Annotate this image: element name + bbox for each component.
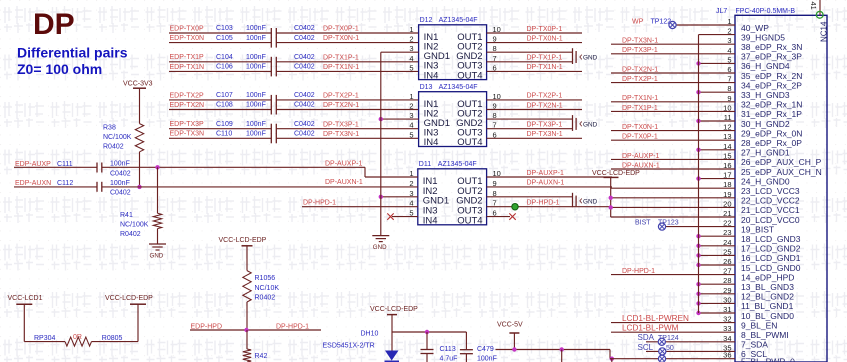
svg-text:5: 5 xyxy=(409,130,413,139)
svg-text:IN4: IN4 xyxy=(424,137,439,148)
svg-text:DP-TX3P-1: DP-TX3P-1 xyxy=(622,47,658,54)
resistor R42 xyxy=(246,330,248,349)
svg-text:DP-TX1P-1: DP-TX1P-1 xyxy=(323,54,359,61)
svg-text:D13: D13 xyxy=(420,84,433,91)
svg-text:NC/10K: NC/10K xyxy=(255,285,280,292)
wire D13 out1 DP-TX2P-1 xyxy=(487,99,582,101)
testpoint on pin36 wire xyxy=(658,355,665,362)
capacitor C106 xyxy=(270,66,272,76)
capacitor C103 xyxy=(270,28,272,38)
svg-text:C0402: C0402 xyxy=(294,102,315,109)
svg-text:14_eDP_HPD: 14_eDP_HPD xyxy=(741,272,794,282)
wire JL7 pin 5 xyxy=(699,62,736,64)
junction gnd bus pin 29 xyxy=(696,292,700,296)
svg-text:GND: GND xyxy=(150,253,164,260)
wire JL7 pin 11 xyxy=(699,120,736,122)
junction VCC-5V branch xyxy=(560,347,564,351)
svg-text:35_eDP_Rx_2N: 35_eDP_Rx_2N xyxy=(741,71,802,81)
wire JL7 pin 35 xyxy=(646,350,735,352)
wire D12 out4 DP-TX1N-1 xyxy=(487,70,582,72)
svg-text:C0402: C0402 xyxy=(294,54,315,61)
svg-text:100nF: 100nF xyxy=(246,25,266,32)
wire EDP-AUXP to D11 pin1 xyxy=(102,166,365,168)
svg-text:100nF: 100nF xyxy=(246,64,266,71)
svg-text:C104: C104 xyxy=(216,54,233,61)
svg-text:GND: GND xyxy=(583,55,598,62)
wire D13 pin3 GND1 to gnd bus xyxy=(381,118,419,120)
svg-text:DP-TX3P-1: DP-TX3P-1 xyxy=(323,121,359,128)
svg-text:32_eDP_Rx_1N: 32_eDP_Rx_1N xyxy=(741,100,802,110)
wire JL7 pin 12 xyxy=(611,130,735,132)
svg-text:R1056: R1056 xyxy=(255,275,276,282)
svg-text:VCC-LCD-EDP: VCC-LCD-EDP xyxy=(370,306,418,313)
svg-text:DP-AUXP-1: DP-AUXP-1 xyxy=(527,170,564,177)
wire D11 out3 DP-HPD-1 xyxy=(487,206,612,208)
svg-text:DP-AUXN-1: DP-AUXN-1 xyxy=(527,180,565,187)
junction gnd bus pin 11 xyxy=(696,119,700,123)
wire EDP-TX3P to C109 xyxy=(169,128,271,130)
svg-text:100nF: 100nF xyxy=(246,121,266,128)
wire D12 gnd2 to ground xyxy=(487,51,573,53)
wire C106 to IC pin xyxy=(276,70,418,72)
svg-text:DP-TX1N-1: DP-TX1N-1 xyxy=(323,64,359,71)
wire JL7 pin 36 xyxy=(610,358,735,360)
wire JL7 pin 26 xyxy=(699,264,736,266)
svg-text:DP-HPD-1: DP-HPD-1 xyxy=(527,200,560,207)
wire VCC-5V to pin36 5_BL_PWR_0 xyxy=(609,350,611,359)
svg-text:C107: C107 xyxy=(216,92,233,99)
wire JL7 pin 21 xyxy=(611,216,735,218)
wire EDP-TX2P to C107 xyxy=(169,99,271,101)
junction BL_PWR down branch xyxy=(610,357,614,361)
capacitor C113 4.7uF xyxy=(426,332,428,350)
wire JL7 pin 6 xyxy=(611,72,735,74)
wire EDP-TX0P to C103 xyxy=(169,32,271,34)
svg-text:D12: D12 xyxy=(420,17,433,24)
svg-text:100nF: 100nF xyxy=(246,35,266,42)
svg-text:OUT4: OUT4 xyxy=(457,137,482,148)
svg-text:18_LCD_GND3: 18_LCD_GND3 xyxy=(741,234,801,244)
svg-text:50: 50 xyxy=(666,345,674,352)
svg-text:10_BL_GND0: 10_BL_GND0 xyxy=(741,311,794,321)
wire D11 out2 DP-AUXN-1 xyxy=(487,186,612,188)
svg-text:9_BL_EN: 9_BL_EN xyxy=(741,320,777,330)
wire JL7 pin 4 xyxy=(611,53,735,55)
svg-text:DP-AUXP-1: DP-AUXP-1 xyxy=(325,161,362,168)
wire C103 to IC pin xyxy=(276,32,418,34)
no-connect X on D11 pin5 xyxy=(392,216,418,218)
svg-text:1: 1 xyxy=(409,25,413,34)
svg-text:EDP-TX3P: EDP-TX3P xyxy=(170,121,205,128)
svg-text:19_BIST: 19_BIST xyxy=(741,224,774,234)
wire gnd bus connector xyxy=(698,35,700,313)
svg-text:24_H_GND0: 24_H_GND0 xyxy=(741,176,790,186)
wire JL7 pin 7 xyxy=(611,82,735,84)
svg-text:12_BL_GND2: 12_BL_GND2 xyxy=(741,292,794,302)
wire C105 to IC pin xyxy=(276,42,418,44)
wire D13 gnd2 to ground xyxy=(487,118,573,120)
capacitor C104 xyxy=(270,57,272,67)
svg-text:VCC-3V3: VCC-3V3 xyxy=(123,80,153,87)
wire JL7 pin 20 xyxy=(611,206,735,208)
svg-text:C113: C113 xyxy=(440,346,456,353)
svg-text:100nF: 100nF xyxy=(110,161,130,168)
svg-text:C108: C108 xyxy=(216,102,233,109)
svg-text:2: 2 xyxy=(409,102,413,111)
junction gnd bus pin 28 xyxy=(696,282,700,286)
svg-text:VCC-LCD-EDP: VCC-LCD-EDP xyxy=(219,237,267,244)
wire C104 to IC pin xyxy=(276,61,418,63)
svg-text:DP-TX0N-1: DP-TX0N-1 xyxy=(622,124,658,131)
svg-text:1: 1 xyxy=(409,92,413,101)
svg-text:38_eDP_Rx_3N: 38_eDP_Rx_3N xyxy=(741,42,802,52)
svg-text:36_H_GND4: 36_H_GND4 xyxy=(741,61,790,71)
wire JL7 pin 32 xyxy=(611,322,735,324)
svg-text:OUT4: OUT4 xyxy=(457,216,482,227)
wire JL7 pin 31 xyxy=(699,312,736,314)
svg-text:R0402: R0402 xyxy=(120,231,141,238)
svg-text:AZ1345-04F: AZ1345-04F xyxy=(439,17,478,24)
junction gnd bus pin 8 xyxy=(696,90,700,94)
svg-text:DP-HPD-1: DP-HPD-1 xyxy=(622,268,655,275)
svg-text:100nF: 100nF xyxy=(246,92,266,99)
wire EDP-TX3N to C110 xyxy=(169,137,271,139)
capacitor C110 xyxy=(270,133,272,143)
wire JL7 pin 18 xyxy=(611,187,735,189)
op-amp/ESD array D11 AZ1345-04F xyxy=(418,169,487,225)
wire JL7 pin 28 xyxy=(699,283,736,285)
svg-text:C0402: C0402 xyxy=(294,64,315,71)
svg-text:GND: GND xyxy=(373,244,387,251)
svg-text:DP-TX3P-1: DP-TX3P-1 xyxy=(527,122,563,129)
svg-text:VCC-LCD-EDP: VCC-LCD-EDP xyxy=(105,295,153,302)
svg-text:EDP-TX1N: EDP-TX1N xyxy=(170,64,205,71)
ground symbol D11 GND2 xyxy=(572,193,574,207)
svg-text:LCD1-BL-PWREN: LCD1-BL-PWREN xyxy=(622,314,689,323)
svg-text:DP-AUXN-1: DP-AUXN-1 xyxy=(325,179,363,186)
svg-text:AZ1345-04F: AZ1345-04F xyxy=(439,84,478,91)
svg-text:27_H_GND1: 27_H_GND1 xyxy=(741,148,790,158)
wire D12 out1 DP-TX0P-1 xyxy=(487,32,582,34)
wire VCC-5V rail xyxy=(496,349,611,351)
connector JL7 FPC-40P-0.5MM-B xyxy=(735,15,827,362)
svg-text:EDP-TX2P: EDP-TX2P xyxy=(170,92,205,99)
svg-text:GND: GND xyxy=(583,122,598,129)
svg-text:DP-TX1N-1: DP-TX1N-1 xyxy=(622,95,658,102)
wire C110 to IC pin xyxy=(276,137,418,139)
junction D11 GND1 xyxy=(379,195,383,199)
wire D11 out1 DP-AUXP-1 xyxy=(487,176,612,178)
wire JL7 pin 27 xyxy=(611,274,735,276)
svg-text:VCC-LCD1: VCC-LCD1 xyxy=(8,295,43,302)
wire D13 out2 DP-TX2N-1 xyxy=(487,109,582,111)
svg-text:23_LCD_VCC3: 23_LCD_VCC3 xyxy=(741,186,800,196)
svg-text:4: 4 xyxy=(409,54,413,63)
capacitor C107 xyxy=(270,95,272,105)
svg-text:NC14: NC14 xyxy=(820,21,829,42)
svg-text:GND: GND xyxy=(583,199,598,206)
capacitor C109 xyxy=(270,124,272,134)
wire JL7 pin 13 xyxy=(611,139,735,141)
wire JL7 pin 22 xyxy=(662,226,735,228)
junction EDP-HPD / R1056 xyxy=(244,328,248,332)
svg-text:SDA: SDA xyxy=(638,333,655,342)
svg-text:DP-TX2N-1: DP-TX2N-1 xyxy=(622,66,658,73)
svg-text:DP-TX3N-1: DP-TX3N-1 xyxy=(323,131,359,138)
svg-text:DP-TX2N-1: DP-TX2N-1 xyxy=(323,102,359,109)
wire VCC-LCD-EDP horizontal xyxy=(392,331,467,333)
svg-text:EDP-TX1P: EDP-TX1P xyxy=(170,54,205,61)
svg-text:29_eDP_Rx_0N: 29_eDP_Rx_0N xyxy=(741,128,802,138)
svg-text:C0402: C0402 xyxy=(294,35,315,42)
wire JL7 pin 29 xyxy=(699,293,736,295)
svg-text:ESD5451X-2/TR: ESD5451X-2/TR xyxy=(323,342,375,349)
svg-text:34_eDP_Rx_2P: 34_eDP_Rx_2P xyxy=(741,80,802,90)
wire C108 to IC pin xyxy=(276,109,418,111)
svg-text:17_LCD_GND2: 17_LCD_GND2 xyxy=(741,244,801,254)
junction R41-AUXP xyxy=(155,165,159,169)
junction gnd bus pin 30 xyxy=(696,301,700,305)
svg-text:5: 5 xyxy=(409,63,413,72)
svg-text:C0402: C0402 xyxy=(110,170,131,177)
svg-text:20_LCD_VCC0: 20_LCD_VCC0 xyxy=(741,215,800,225)
wire D11 pin3 GND1 xyxy=(381,196,418,198)
pin 41 stub with NC marker xyxy=(819,0,821,15)
svg-text:C105: C105 xyxy=(216,35,233,42)
ground symbol D12 GND2 xyxy=(572,48,574,64)
svg-text:22_LCD_VCC2: 22_LCD_VCC2 xyxy=(741,196,800,206)
svg-text:IN4: IN4 xyxy=(424,70,439,81)
svg-text:WP: WP xyxy=(632,18,644,25)
wire D13 out3 DP-TX3P-1 xyxy=(487,128,572,130)
svg-text:DP-HPD-1: DP-HPD-1 xyxy=(276,323,309,330)
svg-text:BIST: BIST xyxy=(635,219,651,226)
svg-text:DP-TX0P-1: DP-TX0P-1 xyxy=(323,26,359,33)
svg-text:DP-HPD-1: DP-HPD-1 xyxy=(303,200,336,207)
svg-text:100nF: 100nF xyxy=(246,54,266,61)
svg-text:C103: C103 xyxy=(216,25,233,32)
op-amp/ESD array D12 AZ1345-04F xyxy=(419,25,487,80)
junction D13 GND1 xyxy=(379,117,383,121)
resistor R41 NC/100K xyxy=(157,167,159,213)
junction VCC-5V stem xyxy=(512,347,516,351)
svg-text:EDP-HPD: EDP-HPD xyxy=(191,323,223,330)
svg-text:EDP-AUXN: EDP-AUXN xyxy=(15,180,51,187)
wire EDP-TX0N to C105 xyxy=(169,42,271,44)
ground symbol mid xyxy=(372,235,389,237)
svg-text:100nF: 100nF xyxy=(246,102,266,109)
svg-text:EDP-TX0N: EDP-TX0N xyxy=(170,35,205,42)
svg-text:DP-TX0P-1: DP-TX0P-1 xyxy=(622,134,658,141)
capacitor C108 xyxy=(270,105,272,115)
svg-text:100nF: 100nF xyxy=(477,356,497,362)
capacitor C105 xyxy=(270,38,272,48)
svg-text:C106: C106 xyxy=(216,64,233,71)
wire D12 out2 DP-TX0N-1 xyxy=(487,42,582,44)
svg-text:Differential pairs: Differential pairs xyxy=(17,45,128,61)
wire DP-HPD-1 to D11 pin4 xyxy=(302,206,418,208)
wire JL7 pin 24 xyxy=(699,245,736,247)
svg-text:R42: R42 xyxy=(255,353,268,360)
svg-text:39_HGND5: 39_HGND5 xyxy=(741,32,785,42)
wire C107 to IC pin xyxy=(276,99,418,101)
svg-text:DP-TX3N-1: DP-TX3N-1 xyxy=(527,131,563,138)
svg-text:EDP-TX2N: EDP-TX2N xyxy=(170,102,205,109)
ground symbol left xyxy=(149,243,166,245)
wire D12 out3 DP-TX1P-1 xyxy=(487,61,572,63)
svg-text:R0402: R0402 xyxy=(103,144,124,151)
svg-text:SCL: SCL xyxy=(638,343,654,352)
svg-text:100nF: 100nF xyxy=(110,180,130,187)
wire EDP-TX1N to C106 xyxy=(169,70,271,72)
svg-text:5_BL_PWR_0: 5_BL_PWR_0 xyxy=(741,357,795,362)
wire JL7 pin 25 xyxy=(699,254,736,256)
svg-text:28_eDP_Rx_0P: 28_eDP_Rx_0P xyxy=(741,138,802,148)
junction gnd bus pin 23 xyxy=(696,234,700,238)
svg-text:DP-TX1P-1: DP-TX1P-1 xyxy=(527,55,563,62)
no-connect X on D11 pin6 xyxy=(487,216,510,218)
wire JL7 pin 19 xyxy=(611,197,735,199)
svg-text:DP-TX3N-1: DP-TX3N-1 xyxy=(622,38,658,45)
svg-text:DH10: DH10 xyxy=(361,330,379,337)
junction gnd bus pin 5 xyxy=(696,61,700,65)
svg-text:33_H_GND3: 33_H_GND3 xyxy=(741,90,790,100)
svg-text:8_BL_PWMI: 8_BL_PWMI xyxy=(741,330,789,340)
svg-text:LCD1-BL-PWM: LCD1-BL-PWM xyxy=(622,324,679,333)
svg-text:DP-TX0N-1: DP-TX0N-1 xyxy=(323,35,359,42)
svg-text:DP-TX1N-1: DP-TX1N-1 xyxy=(527,64,563,71)
junction LCD_VCC2 xyxy=(609,196,613,200)
wire EDP-AUXN to D11 pin2 xyxy=(102,186,418,188)
junction C113 xyxy=(425,330,429,334)
svg-text:41: 41 xyxy=(809,2,818,10)
svg-text:NC/100K: NC/100K xyxy=(103,134,132,141)
wire JL7 pin 33 xyxy=(611,331,735,333)
wire JL7 pin 9 xyxy=(611,101,735,103)
svg-text:40_WP: 40_WP xyxy=(741,23,769,33)
wire D13 out4 DP-TX3N-1 xyxy=(487,137,582,139)
junction gnd bus pin 26 xyxy=(696,263,700,267)
junction R38-AUXN xyxy=(137,185,141,189)
svg-text:EDP-TX0P: EDP-TX0P xyxy=(170,25,205,32)
svg-text:VCC-5V: VCC-5V xyxy=(497,322,523,329)
svg-text:TP122: TP122 xyxy=(651,18,672,25)
svg-text:R0402: R0402 xyxy=(255,294,276,301)
wire EDP-TX1P to C104 xyxy=(169,61,271,63)
wire JL7 pin 8 xyxy=(699,91,736,93)
svg-text:C112: C112 xyxy=(57,180,73,187)
wire JL7 pin 30 xyxy=(699,302,736,304)
svg-text:Z0= 100 ohm: Z0= 100 ohm xyxy=(17,61,102,77)
svg-text:21_LCD_VCC1: 21_LCD_VCC1 xyxy=(741,205,800,215)
wire C109 to IC pin xyxy=(276,128,418,130)
wire JL7 pin 10 xyxy=(611,110,735,112)
svg-text:13_BL_GND3: 13_BL_GND3 xyxy=(741,282,794,292)
svg-text:R41: R41 xyxy=(120,212,133,219)
wire EDP-HPD row xyxy=(190,329,321,331)
svg-text:OUT4: OUT4 xyxy=(457,70,482,81)
wire JL7 pin 23 xyxy=(699,235,736,237)
svg-text:VCC-LCD-EDP: VCC-LCD-EDP xyxy=(592,170,640,177)
junction gnd bus pin 24 xyxy=(696,244,700,248)
svg-text:26_eDP_AUX_CH_P: 26_eDP_AUX_CH_P xyxy=(741,157,822,167)
junction gnd bus pin 31 xyxy=(696,311,700,315)
svg-text:RP304: RP304 xyxy=(34,335,56,342)
svg-text:IN4: IN4 xyxy=(423,216,438,227)
capacitor C479 100nF xyxy=(465,332,467,350)
svg-text:DP-AUXP-1: DP-AUXP-1 xyxy=(622,153,659,160)
svg-text:DP-TX2P-1: DP-TX2P-1 xyxy=(527,93,563,100)
wire JL7 pin 17 xyxy=(699,178,736,180)
wire JL7 pin 16 xyxy=(611,168,735,170)
svg-text:DP-TX0N-1: DP-TX0N-1 xyxy=(527,35,563,42)
wire JL7 pin 1 xyxy=(673,24,736,26)
svg-text:D11: D11 xyxy=(419,161,431,168)
svg-text:DP-TX1P-1: DP-TX1P-1 xyxy=(622,105,658,112)
wire JL7 pin 14 xyxy=(699,149,736,151)
svg-text:NC/100K: NC/100K xyxy=(120,222,149,229)
svg-text:C0402: C0402 xyxy=(294,25,315,32)
wire JL7 pin 3 xyxy=(611,43,735,45)
svg-text:DP-TX2P-1: DP-TX2P-1 xyxy=(622,76,658,83)
svg-text:25_eDP_AUX_CH_N: 25_eDP_AUX_CH_N xyxy=(741,167,822,177)
svg-text:31_eDP_Rx_1P: 31_eDP_Rx_1P xyxy=(741,109,802,119)
svg-text:C109: C109 xyxy=(216,121,233,128)
svg-text:15_LCD_GND0: 15_LCD_GND0 xyxy=(741,263,801,273)
svg-text:C0402: C0402 xyxy=(110,190,131,197)
svg-text:R0805: R0805 xyxy=(102,335,123,342)
svg-text:DP-TX0P-1: DP-TX0P-1 xyxy=(527,26,563,33)
svg-text:16_LCD_GND1: 16_LCD_GND1 xyxy=(741,253,801,263)
svg-text:C479: C479 xyxy=(477,346,494,353)
wire JL7 pin 2 xyxy=(699,34,736,36)
svg-text:EDP-TX3N: EDP-TX3N xyxy=(170,131,205,138)
wire R38 to AUXN row xyxy=(139,152,141,187)
svg-text:C0402: C0402 xyxy=(294,121,315,128)
svg-text:37_eDP_Rx_3P: 37_eDP_Rx_3P xyxy=(741,52,802,62)
junction gnd bus pin 14 xyxy=(696,148,700,152)
svg-text:2: 2 xyxy=(409,35,413,44)
wire JL7 pin 15 xyxy=(611,158,735,160)
wire gnd bus vertical D12-D13-D11 xyxy=(380,52,382,235)
svg-text:4.7uF: 4.7uF xyxy=(440,356,458,362)
svg-text:7_SDA: 7_SDA xyxy=(741,340,768,350)
junction LCD_VCC1 xyxy=(609,205,613,209)
wire D11 gnd2 to ground xyxy=(487,196,573,198)
wire JL7 pin 34 xyxy=(646,341,735,343)
svg-text:FPC-40P-0.5MM-B: FPC-40P-0.5MM-B xyxy=(736,8,796,15)
green marker on DP-HPD-1 xyxy=(512,204,518,210)
junction gnd bus pin 17 xyxy=(696,176,700,180)
svg-text:100nF: 100nF xyxy=(246,131,266,138)
svg-text:C110: C110 xyxy=(216,131,232,138)
svg-text:DP: DP xyxy=(33,8,75,41)
junction gnd bus pin 25 xyxy=(696,253,700,257)
svg-text:11_BL_GND1: 11_BL_GND1 xyxy=(741,301,794,311)
svg-text:JL7: JL7 xyxy=(716,8,727,15)
svg-text:C0402: C0402 xyxy=(294,131,315,138)
ground symbol D13 GND2 xyxy=(572,115,574,131)
svg-text:AZ1345-04F: AZ1345-04F xyxy=(438,161,477,168)
op-amp/ESD array D13 AZ1345-04F xyxy=(419,92,487,147)
svg-text:4: 4 xyxy=(409,121,413,130)
svg-text:R38: R38 xyxy=(103,124,116,131)
wire EDP-TX2N to C108 xyxy=(169,109,271,111)
svg-text:30_H_GND2: 30_H_GND2 xyxy=(741,119,790,129)
svg-text:DP-TX2N-1: DP-TX2N-1 xyxy=(527,102,563,109)
svg-text:C0402: C0402 xyxy=(294,92,315,99)
svg-text:DP-AUXN-1: DP-AUXN-1 xyxy=(622,162,660,169)
